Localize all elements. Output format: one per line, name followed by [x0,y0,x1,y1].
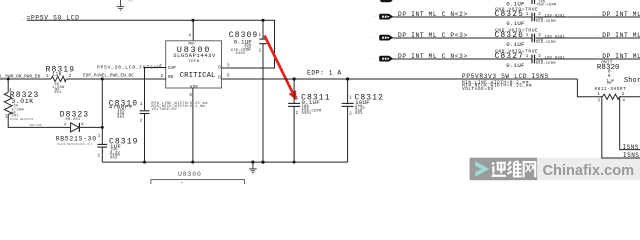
wire EDP row [222,78,578,80]
capacitor C8311 [288,79,331,162]
net label PANEL_PWR_OR_PWR_EN [0,74,40,79]
wire row2 left [392,37,531,39]
svg-text:ISNS: ISNS [623,152,639,159]
node junction U8300 GND rail [191,161,194,164]
connector tag row2 [380,35,393,40]
svg-text:EDP: 1 A: EDP: 1 A [307,69,342,76]
svg-text:0.1UF: 0.1UF [506,41,525,48]
pin number 1 C8319 [98,135,101,139]
pin number 6 [189,94,192,98]
svg-text:Short: Short [624,77,640,85]
svg-text:0.1UF: 0.1UF [506,20,525,27]
svg-text:ISNS: ISNS [623,144,639,151]
node junction C8309 rail [261,161,264,164]
wire jog to R8320 [577,79,602,97]
note EDP current [307,69,342,76]
pin number 2 R8320 [622,93,625,97]
svg-text:16V 0201: 16V 0201 [545,56,566,60]
svg-text:..: .. [596,33,601,37]
pin number 1 C8310 [140,103,143,107]
part label U8300 pad [178,171,202,178]
net label DP_INT_ML_C_N3 [398,53,468,60]
node junction C8310 rail [143,161,146,164]
svg-text:PLACE_NEAR(D8323)-0.1: PLACE_NEAR(D8323)-0.1 [57,142,93,146]
net label PP5VR3V3_SW_LCD_ISNS [462,73,549,80]
pin number 2 R8319 [69,75,72,79]
svg-text:VOLTAGE=5V: VOLTAGE=5V [152,108,178,112]
svg-text:0402: 0402 [302,112,312,116]
svg-text:D: D [218,65,221,70]
wire R8323 top [7,79,9,92]
svg-text:X5R-CERM: X5R-CERM [536,20,556,24]
net label EDP_PANEL_PWR_EN_BC_F [30,124,44,127]
svg-text:NC: NC [128,0,133,4]
pin number 1 R8320 [597,93,600,97]
pin number 5 [227,74,230,78]
net label row3 right [602,53,640,60]
resistor R8320 [595,62,627,100]
note PP5VR3V3 layout [462,81,532,92]
wire GND rail [102,161,347,163]
connector tag row3 [380,56,393,61]
pin number 4 [188,34,191,38]
xref marker PP5V [20,17,25,21]
svg-text:..: .. [596,12,601,16]
svg-text:0.1UF: 0.1UF [506,0,525,7]
svg-text:X5R-CERM: X5R-CERM [536,41,556,45]
svg-text:C8326: C8326 [495,31,525,40]
wire row1 right [535,16,640,18]
wire row3 right [535,58,640,60]
node junction EN_BC [101,78,104,81]
wire R8320 out [619,96,640,98]
svg-text:PLACE_NEAR=U83: PLACE_NEAR=U83 [10,118,34,121]
capacitor C8326 [495,27,566,48]
svg-text:CAP: CAP [168,66,176,71]
CJK wei [507,161,522,178]
pin number 3 R8320 [597,100,600,104]
wire diode cathode [79,126,102,128]
pin number 2 C8312 [349,113,352,117]
pin number 1 R8319 [46,75,49,79]
svg-text:Chinafix.com: Chinafix.com [543,163,635,179]
net label row2 right [602,32,640,39]
ground bottom [249,162,257,173]
wire row2 right [535,37,640,39]
svg-text:EDP_PANEL_PWR_EN_BC: EDP_PANEL_PWR_EN_BC [83,73,134,78]
net label PP5V_S0_LCD [27,14,80,21]
pin number 7 [159,65,162,69]
svg-text:GND: GND [190,86,199,90]
svg-text:C8325: C8325 [495,10,525,19]
ground top-left [117,0,125,10]
capacitor C8319 [97,127,138,162]
pin number 2 [161,75,164,79]
capacitor C8324 partial top [380,0,556,7]
svg-text:0402: 0402 [236,52,246,56]
capacitor C8325 [495,6,566,27]
annotation red arrow [265,36,297,101]
wire VDD pin [192,20,194,41]
pin number 2 C8309 [259,49,262,53]
connector tag row1 [380,14,393,19]
box U8300 pad symbol [151,180,245,188]
annotation Short [624,77,640,85]
svg-text:16V 0201: 16V 0201 [545,14,566,18]
node junction VDD [191,19,194,22]
net label ISNS lower [623,152,639,159]
node junction C8312 top [346,77,349,80]
xref marker row2 [372,35,382,39]
xref marker row3 right [596,54,601,58]
xref marker row3 [372,56,382,60]
wire ON row left [0,78,166,80]
xref marker row2 right [596,33,601,37]
wire U8300 GND [192,88,194,162]
pin number 4 R8320 [622,100,625,104]
svg-text:RB521S-30: RB521S-30 [56,136,97,143]
diode D8323 [56,111,97,146]
watermark [470,158,640,181]
CJK xun [491,162,506,177]
wire R8320 sense 3 [602,97,640,158]
svg-text:402: 402 [110,157,117,161]
svg-text:D: D [218,75,221,80]
pin number 2 C8310 [140,119,143,123]
node junction C8309 top [261,19,264,22]
node junction diode/C8319 [101,126,104,129]
svg-text:X5R-CERM: X5R-CERM [537,3,557,7]
capacitor C8310 [109,99,150,162]
svg-text:U8300: U8300 [178,171,202,178]
pin number 3 [227,64,230,68]
svg-text:DP_INT_ML: DP_INT_ML [602,32,640,39]
wire row1 left [392,16,531,18]
svg-text:ON: ON [168,75,174,80]
svg-text:SM-201: SM-201 [65,118,80,122]
node junction ground rail [251,161,254,164]
svg-text:201: 201 [117,116,125,120]
net label DP_INT_ML_C_N2 [398,11,468,18]
net label DP_INT_ML_C_P3 [398,32,468,39]
svg-text:PP5VR3V3_SW_LCD_ISNS: PP5VR3V3_SW_LCD_ISNS [462,73,549,80]
svg-text:MF: MF [607,82,612,86]
resistor R8323 [4,91,39,121]
capacitor C8312 [342,79,384,162]
svg-text:CRITICAL: CRITICAL [180,72,216,80]
xref marker row1 right [596,12,601,16]
wire R8323 bottom to diode [8,114,70,127]
net label EDP_PANEL_PWR_EN_BC [83,73,134,78]
wire CAP pin to C8310 [145,68,167,111]
note C8310 layout [152,102,208,112]
wire PP5V_S0_LCD rail [27,20,275,68]
node junction C8311 rail [293,161,296,164]
svg-text:X5R-CERM: X5R-CERM [536,62,556,66]
svg-text:0612-SHORT: 0612-SHORT [595,87,627,92]
wire R8320 sense 4 [620,97,640,150]
pin number 1 R8323 [9,89,12,93]
svg-text:DP_INT_ML: DP_INT_ML [602,53,640,60]
pin number 1 C8312 [349,97,352,101]
svg-text:11K: 11K [52,71,62,77]
svg-text:VOLTAGE=5V: VOLTAGE=5V [462,87,494,92]
svg-text:..: .. [596,54,601,58]
capacitor C8309 [229,20,267,162]
pin number 2 R8323 [5,115,8,119]
pin number 1 C8311 [296,97,299,101]
node junction C8311 top [293,77,296,80]
capacitor C8327 [495,48,566,69]
CJK wang [523,161,537,177]
svg-text:C8327: C8327 [495,52,525,61]
clipped text top edge [128,0,133,4]
net label ISNS upper [623,144,639,151]
op-amp U8300 body [166,41,222,90]
svg-text:0: 0 [608,74,611,79]
svg-text:201: 201 [54,91,62,95]
svg-text:DP_INT_ML: DP_INT_ML [602,11,640,18]
xref marker row1 [372,14,382,18]
net label PP5V_S0_LCD_FKTCAP [97,65,161,71]
svg-text:603: 603 [355,112,362,116]
net label row1 right [602,11,640,18]
pin number 1 C8309 [259,34,262,38]
svg-text:SLG5AP1443V: SLG5AP1443V [173,53,216,59]
svg-text:+: + [181,182,183,184]
wire row3 left [392,58,531,60]
pin number 2 C8319 [97,154,100,158]
wire EN_BC vertical [101,79,103,127]
node junction R8323 tap [7,78,10,81]
svg-text:0.1UF: 0.1UF [506,62,525,69]
svg-text:TDFN: TDFN [188,60,200,64]
svg-text:16V 0201: 16V 0201 [545,35,566,39]
svg-text:EDP_PWR_: EDP_PWR_ [30,124,44,127]
pin number 2 C8311 [296,112,299,116]
svg-text:..: .. [20,17,25,21]
resistor R8319 [46,65,76,95]
